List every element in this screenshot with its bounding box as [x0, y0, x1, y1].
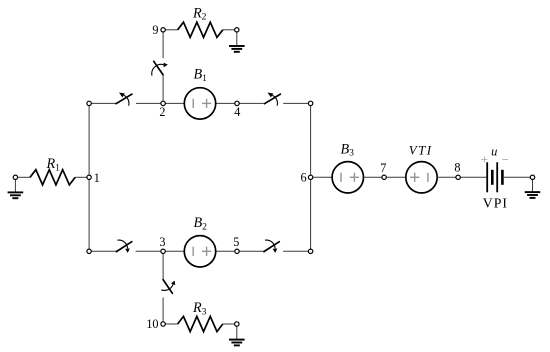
svg-text:+: + [481, 152, 488, 167]
source VTI [406, 162, 437, 193]
node 7 [382, 175, 386, 179]
terminal circle at right ground [530, 175, 534, 179]
wire: R1 to node 1 [75, 176, 89, 178]
svg-text:VTI: VTI [409, 143, 433, 158]
wire: S2 to top-right corner [283, 102, 310, 104]
wire: R3 to its ground terminal [223, 323, 235, 325]
wire left rail (node 1 column) [88, 103, 90, 251]
svg-text:1: 1 [94, 171, 100, 185]
switch S5 (vertical, between node 9 and node 2) [154, 61, 163, 75]
wire: node 9 down to switch S5 [162, 32, 164, 58]
wire: battery to right ground terminal [502, 176, 530, 178]
node 4 [235, 101, 239, 105]
corner junction top-right [308, 101, 312, 105]
svg-text:10: 10 [146, 317, 158, 331]
node 1 [87, 175, 91, 179]
corner junction bottom-left [87, 249, 91, 253]
wire: S3 to source B2 through node 3 [136, 250, 185, 252]
svg-text:−: − [502, 152, 509, 167]
source B3 [332, 162, 363, 193]
source B1 [184, 88, 215, 119]
svg-text:VPI: VPI [483, 196, 508, 211]
wire: S1 to source B1 through node 2 [136, 102, 184, 104]
ground symbol at R2 [236, 32, 238, 46]
resistor R2 [178, 22, 223, 37]
svg-text:6: 6 [301, 171, 307, 185]
wire: B3 to source VTI through node 7 [364, 176, 406, 178]
ground symbol at right end [532, 179, 534, 192]
wire: node 10 to resistor R3 [165, 323, 177, 325]
wire: node 6 to source B3 [311, 176, 333, 178]
terminal circle at R2 ground [235, 28, 239, 32]
switch S4 (bottom-right closing switch) [264, 242, 279, 252]
battery VPI plate 1 (long) [486, 162, 488, 192]
svg-text:3: 3 [159, 235, 165, 249]
wire: R2 to its ground terminal [223, 29, 235, 31]
wire bottom row: left corner to switch S3 [89, 250, 116, 252]
battery VPI plate 3 (long) [496, 162, 498, 192]
svg-text:8: 8 [454, 161, 460, 175]
svg-text:9: 9 [152, 23, 158, 37]
wire: ground terminal to resistor R1 [18, 176, 31, 178]
corner junction top-left [87, 101, 91, 105]
source B2 [184, 236, 215, 267]
wire: S5 down to node 2 [162, 75, 164, 104]
resistor R1 [30, 170, 75, 185]
node 2 [161, 101, 165, 105]
node 10 [161, 322, 165, 326]
node 8 [456, 175, 460, 179]
wire: node 3 down to switch S6 [162, 251, 164, 279]
svg-text:u: u [491, 145, 497, 159]
wire top row: left corner to switch S1 [89, 102, 116, 104]
svg-text:7: 7 [380, 161, 386, 175]
svg-text:5: 5 [233, 235, 239, 249]
node 9 [161, 28, 165, 32]
node 3 [161, 249, 165, 253]
wire: B1 to switch S2 through node 4 [216, 102, 265, 104]
switch S2 (top-right opening switch) [265, 94, 281, 104]
node 5 [235, 249, 239, 253]
corner junction bottom-right [308, 249, 312, 253]
switch S1 (top-left opening switch) [116, 94, 132, 104]
terminal circle at R3 ground [235, 322, 239, 326]
svg-text:4: 4 [234, 105, 240, 119]
switch S6 (vertical, between node 3 and node 10) [163, 280, 172, 294]
wire right rail (node 6 column) [310, 103, 312, 251]
wire: VTI to battery VPI through node 8 [437, 176, 487, 178]
ground symbol at R1 left terminal [14, 179, 16, 192]
terminal circle at R1 ground [13, 175, 17, 179]
resistor R3 [178, 316, 223, 331]
ground symbol at R3 [236, 326, 238, 340]
node 6 [308, 175, 312, 179]
wire: B2 to switch S4 through node 5 [216, 250, 264, 252]
wire: node 9 to resistor R2 [165, 29, 177, 31]
switch S3 (bottom-left closing switch) [116, 242, 131, 252]
battery VPI plate 2 (short) [491, 170, 494, 185]
wire: S6 down to node 10 [162, 298, 164, 322]
svg-text:2: 2 [159, 105, 165, 119]
wire: S4 to bottom-right corner [283, 250, 311, 252]
battery VPI plate 4 (short) [501, 170, 504, 185]
